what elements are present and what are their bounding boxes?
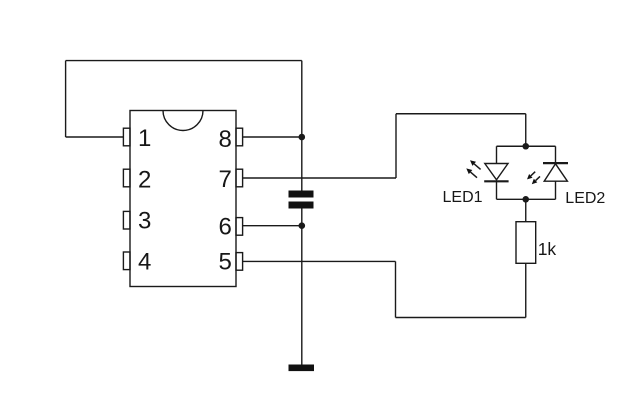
wire capacitor down to ground [301,209,303,365]
LED2 triangle [544,164,567,181]
svg-text:1: 1 [138,125,151,152]
pin 6 stub [236,218,243,236]
wire resistor bottom lead [525,263,527,317]
node at LED top [522,143,529,150]
pin 5 stub [236,253,243,271]
node at LED bottom [522,196,529,203]
LED1 cathode bar [484,180,508,182]
LED1 triangle [485,164,508,180]
pin 7 stub [236,169,243,187]
wire left riser up [65,61,67,137]
label LED1 [443,189,483,206]
wire pin7 riser up [395,114,397,178]
pin 1 stub [123,128,130,146]
svg-text:LED1: LED1 [443,189,483,206]
wire LED2 anode lead [555,181,557,199]
wire pin8 to node [243,136,302,138]
wire top right horizontal [396,113,526,115]
wire pin1 to left riser [66,136,124,138]
pin number 8 [219,126,232,153]
wire pin5 rightward [243,260,396,262]
node at pin6 junction [299,222,306,229]
wire riser to pin5 [395,261,397,317]
pin number 4 [138,249,151,276]
label 1k [538,239,557,259]
svg-text:2: 2 [138,167,151,194]
pin number 5 [219,249,232,276]
svg-text:4: 4 [138,249,151,276]
resistor R1 body [516,222,536,264]
wire node down to capacitor [301,137,303,191]
svg-text:8: 8 [219,126,232,153]
node at pin8 junction [299,134,306,141]
svg-text:LED2: LED2 [565,190,605,207]
svg-text:6: 6 [219,214,232,241]
wire LED loop top [497,145,556,147]
svg-text:1k: 1k [538,239,557,259]
LED1 light arrow lower [466,168,477,177]
pin number 1 [138,125,151,152]
wire bottom horizontal [396,317,526,319]
ground [289,365,315,372]
pin 4 stub [123,252,130,270]
wire drop from top to pin8 node [301,61,303,137]
svg-text:5: 5 [219,249,232,276]
wire LED2 cathode lead [555,146,557,163]
wire top horizontal feedback [66,60,302,62]
wire resistor top lead [525,199,527,221]
LED2 cathode bar [543,162,568,164]
wire LED1 cathode lead [496,181,498,199]
pin number 2 [138,167,151,194]
U1 pin-1 notch [163,111,203,131]
wire LED loop bottom [497,198,556,200]
pin 2 stub [123,169,130,187]
capacitor C1 bottom plate [289,202,314,209]
label LED2 [565,190,605,207]
wire pin7 rightward [243,177,396,179]
pin 3 stub [123,211,130,229]
pin 8 stub [236,128,243,146]
pin number 3 [138,208,151,235]
LED2 light arrow lower [532,176,540,184]
pin number 7 [219,166,232,193]
svg-text:3: 3 [138,208,151,235]
op-amp U1 IC body (8-pin DIP outline) [130,111,236,287]
svg-text:7: 7 [219,166,232,193]
pin number 6 [219,214,232,241]
wire pin6 to node [243,225,302,227]
LED2 light arrow upper [527,172,535,180]
LED1 light arrow upper [470,160,481,169]
wire LED1 anode lead [496,146,498,163]
wire drop to LED top node [525,114,527,147]
capacitor C1 top plate [289,191,314,198]
